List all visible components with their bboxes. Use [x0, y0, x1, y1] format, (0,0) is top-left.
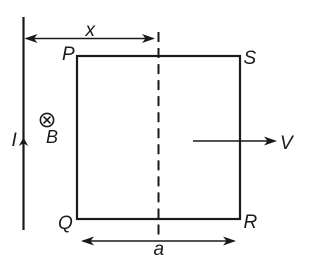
wire: long straight current-carrying conductor	[22, 17, 24, 230]
field symbol: circle with X (B into page)	[40, 113, 53, 126]
svg-text:B: B	[46, 127, 58, 147]
svg-text:P: P	[62, 44, 75, 65]
svg-text:I: I	[12, 130, 18, 151]
square loop PQRS	[77, 56, 240, 219]
dimension arrow x	[26, 38, 153, 40]
dashed line	[158, 32, 160, 235]
dimension arrow a	[83, 240, 234, 242]
svg-text:a: a	[154, 239, 165, 260]
svg-text:Q: Q	[58, 213, 73, 234]
svg-text:x: x	[85, 20, 97, 41]
velocity arrow V	[193, 140, 268, 142]
svg-text:R: R	[244, 212, 258, 233]
current arrow on wire (up)	[19, 138, 28, 147]
svg-text:S: S	[244, 48, 257, 69]
